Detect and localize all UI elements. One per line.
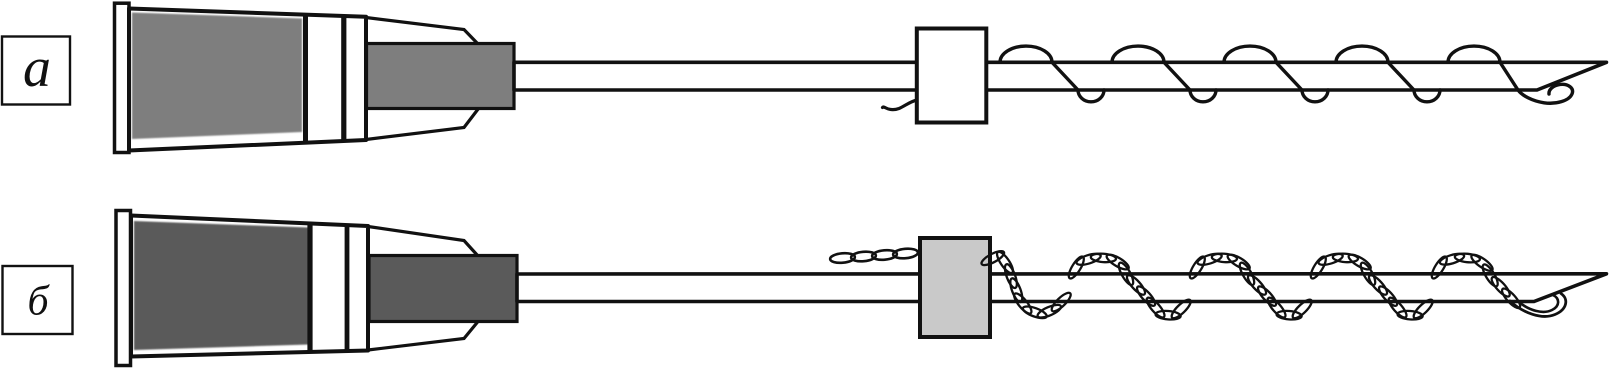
svg-text:а: а [23, 37, 51, 99]
svg-text:б: б [27, 279, 50, 325]
